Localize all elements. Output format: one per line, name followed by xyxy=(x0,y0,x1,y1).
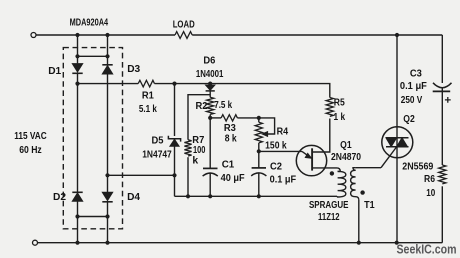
transistor Q1 emitter arrow xyxy=(302,151,308,155)
svg-text:D4: D4 xyxy=(127,192,140,203)
wire D5 branch xyxy=(174,84,176,136)
zener D5 xyxy=(168,136,180,142)
junction D1 anode node xyxy=(75,54,79,58)
wire AC1 drop at x=107.5 xyxy=(107,35,109,65)
svg-text:2N5569: 2N5569 xyxy=(402,161,433,172)
wire ground rail xyxy=(175,195,338,197)
wire right edge bottom (R6 to rail) xyxy=(441,186,443,242)
svg-text:LOAD: LOAD xyxy=(173,19,195,30)
wire D3 anode down xyxy=(107,74,109,192)
svg-text:D3: D3 xyxy=(127,64,140,75)
junction + rail / D5 branch xyxy=(172,82,176,86)
wire AC1 drop at x=77.5 xyxy=(77,35,79,63)
wire T1 secondary top to gate xyxy=(356,167,381,169)
junction + rail / D1 cathode xyxy=(75,82,79,86)
wire branch to R7 xyxy=(188,95,210,140)
svg-text:60 Hz: 60 Hz xyxy=(19,145,42,156)
wire + rail left xyxy=(78,83,139,85)
wire Q1 B2 to R5 xyxy=(312,119,330,153)
terminal bottom-left xyxy=(33,240,38,245)
junction ground rail / C2 xyxy=(257,194,261,198)
resistor R7 xyxy=(184,140,191,156)
resistor R4 xyxy=(258,118,260,122)
svg-text:D6: D6 xyxy=(203,56,215,67)
svg-text:100: 100 xyxy=(193,145,206,156)
resistor R1 xyxy=(138,80,154,87)
transformer T1 primary xyxy=(337,171,346,197)
transformer T1 secondary xyxy=(351,170,359,200)
wire R3 to R4 node xyxy=(237,117,258,119)
svg-text:R6: R6 xyxy=(424,174,435,185)
junction bottom rail / D2 branch xyxy=(75,241,79,245)
svg-text:R1: R1 xyxy=(142,91,154,102)
svg-text:1N4001: 1N4001 xyxy=(196,69,224,80)
svg-text:11Z12: 11Z12 xyxy=(318,212,340,223)
svg-text:115 VAC: 115 VAC xyxy=(14,131,47,142)
junction bottom rail / T1 secondary xyxy=(357,241,361,245)
svg-text:150 k: 150 k xyxy=(265,140,287,151)
wire Q1 B1 to T1 xyxy=(312,168,340,172)
capacitor C3 xyxy=(433,83,452,88)
svg-text:250 V: 250 V xyxy=(401,95,423,106)
svg-text:7.5 k: 7.5 k xyxy=(214,100,232,111)
wire C1 branch xyxy=(209,118,211,168)
svg-text:5.1 k: 5.1 k xyxy=(139,104,157,115)
diode D1 xyxy=(72,64,82,72)
terminal top-left xyxy=(31,33,36,38)
wire bridge bottom node xyxy=(78,216,108,218)
svg-text:R5: R5 xyxy=(334,98,345,109)
svg-text:1N4747: 1N4747 xyxy=(142,149,172,160)
junction ground rail / R7 xyxy=(186,194,190,198)
junction R2/R3/C1 node xyxy=(208,116,212,120)
wire top rail right xyxy=(192,34,442,36)
wire D5 anode down to corner xyxy=(174,146,176,196)
resistor R5 xyxy=(326,98,333,117)
junction D2 anode node xyxy=(75,214,79,218)
node polarity dot secondary xyxy=(360,190,364,194)
junction top rail / Q2 branch xyxy=(395,33,399,37)
junction bottom rail / D4 branch xyxy=(105,241,109,245)
wire top rail left xyxy=(36,34,175,36)
wire T1 secondary bottom down xyxy=(358,200,360,243)
svg-text:SPRAGUE: SPRAGUE xyxy=(309,200,349,211)
svg-text:0.1 μF: 0.1 μF xyxy=(400,81,427,92)
svg-text:k: k xyxy=(192,156,198,167)
resistor R3 xyxy=(221,115,237,121)
transistor Q2 triac xyxy=(382,127,413,158)
resistor R2 xyxy=(207,97,214,114)
junction negative output xyxy=(105,173,109,177)
wire bridge negative output xyxy=(108,174,175,176)
svg-text:D1: D1 xyxy=(48,66,61,77)
junction R4/C2/emitter node xyxy=(257,149,261,153)
junction + rail / D6 branch xyxy=(208,82,212,86)
resistor R6 xyxy=(439,165,446,184)
svg-text:MDA920A4: MDA920A4 xyxy=(70,18,109,29)
junction bottom rail / Q2 xyxy=(395,241,399,245)
junction ground rail / C1 xyxy=(208,194,212,198)
wire D1 cathode down to +node xyxy=(77,73,79,192)
wire bottom rail xyxy=(38,242,443,244)
wire bridge node D1/D3 tops xyxy=(78,55,108,57)
wire + rail right xyxy=(155,84,330,98)
svg-text:0.1 μF: 0.1 μF xyxy=(270,175,297,186)
svg-text:C1: C1 xyxy=(222,160,235,171)
diode D6 xyxy=(206,85,215,90)
transistor Q1 xyxy=(296,145,326,175)
svg-text:R4: R4 xyxy=(277,126,289,137)
diode D3 xyxy=(102,64,112,66)
svg-text:40 μF: 40 μF xyxy=(221,173,245,184)
resistor LOAD xyxy=(175,32,192,39)
junction D5 anode / negative wire xyxy=(172,173,176,177)
svg-text:D2: D2 xyxy=(53,192,66,203)
R4 wiper arm xyxy=(259,118,275,134)
wire D4 cathode down xyxy=(107,202,109,243)
svg-text:C3: C3 xyxy=(410,68,422,79)
svg-text:Q2: Q2 xyxy=(403,114,415,125)
wire node to R3 xyxy=(210,117,221,119)
svg-text:D5: D5 xyxy=(152,136,164,147)
svg-text:T1: T1 xyxy=(364,200,375,211)
wire R7 bottom xyxy=(187,157,189,196)
capacitor C2 xyxy=(258,151,260,167)
wire Q2 branch xyxy=(396,35,398,243)
svg-text:1 k: 1 k xyxy=(334,112,346,123)
junction top rail / D1 branch xyxy=(75,33,79,37)
wire D2 anode down xyxy=(77,201,79,242)
capacitor C1 xyxy=(203,167,218,169)
svg-text:Q1: Q1 xyxy=(340,140,352,151)
svg-text:SeekIC.com: SeekIC.com xyxy=(397,242,457,257)
diode D4 xyxy=(102,192,112,200)
plus sign C3 xyxy=(445,97,451,103)
junction D3 cathode node xyxy=(105,54,109,58)
bridge dashed box MDA920A4 xyxy=(63,48,122,229)
diode D2 xyxy=(72,191,82,193)
wire R2 bottom to node xyxy=(209,115,211,118)
wire right edge top (to C3) xyxy=(441,35,443,83)
junction R3/R4 node xyxy=(257,116,261,120)
svg-text:8 k: 8 k xyxy=(225,134,237,145)
svg-text:10: 10 xyxy=(426,188,435,199)
wire emitter xyxy=(259,150,302,152)
svg-text:2N4870: 2N4870 xyxy=(331,152,361,163)
junction top rail / D3 branch xyxy=(105,33,109,37)
svg-text:R2: R2 xyxy=(196,101,208,112)
node polarity dot primary xyxy=(330,171,334,175)
wire gate diagonal xyxy=(381,147,397,168)
junction D4 cathode node xyxy=(105,214,109,218)
svg-text:C2: C2 xyxy=(270,161,282,172)
